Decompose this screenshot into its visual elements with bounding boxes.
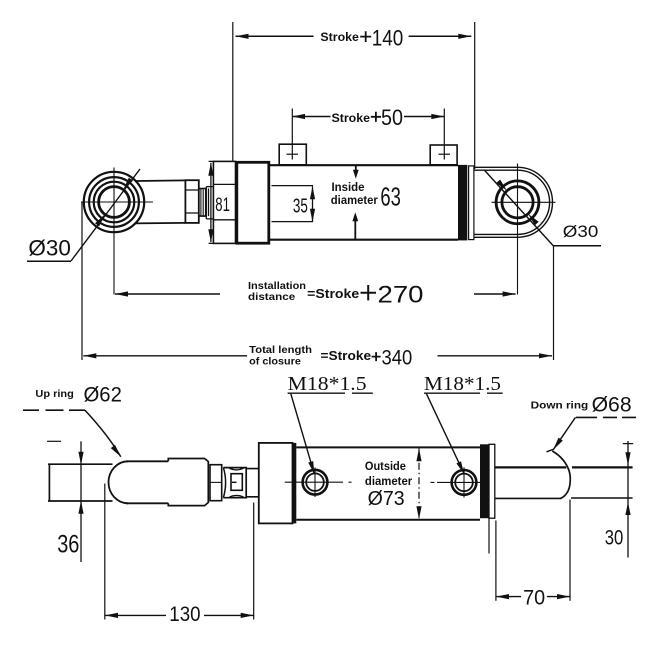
dimension Total length of closure [83,353,552,358]
rod neck [206,187,213,219]
svg-text:Inside: Inside [332,182,365,194]
dimension 35 [310,186,315,222]
gland block [213,161,235,243]
right eye plate [474,167,553,237]
svg-text:M18*1.5: M18*1.5 [288,373,367,395]
right rod (down ring side) [495,466,633,468]
extension line left eye tangent [81,202,83,360]
svg-text:30: 30 [605,527,624,550]
right M18 leader [426,394,464,474]
label Stroke+140 [320,32,359,44]
svg-text:=Stroke: =Stroke [321,349,372,363]
svg-text:Outside: Outside [365,461,406,473]
left M18 leader [291,394,315,475]
dimension 73 [416,448,421,519]
svg-text:=Stroke: =Stroke [307,287,359,301]
dimension 30 [623,441,633,558]
head thick block [237,162,269,243]
down ring leader [576,416,636,418]
up ring sleeve [109,461,129,503]
right eye circles [496,181,539,224]
label Inside diameter 63 [331,181,401,211]
right port circle M18 [431,467,487,497]
svg-text:diameter: diameter [331,195,379,207]
svg-text:Ø30: Ø30 [563,222,599,241]
left port circle M18 [285,468,352,498]
right eye leader diagonal [485,171,554,247]
right eye center lines [492,201,556,203]
dimension 130 [105,484,254,620]
svg-text:Ø62: Ø62 [84,384,122,407]
spacer strip [469,166,474,240]
piston rod hidden lines [272,186,314,222]
rod stub [246,469,259,497]
cylinder barrel (upper view) [269,165,458,240]
svg-text:70: 70 [523,586,545,609]
inside diameter arrows [352,166,358,240]
head block (lower view) [259,443,293,524]
left eye center lines [81,201,153,203]
clevis body (rod end) [134,180,185,223]
dimension 36 [47,441,84,562]
dimension 70 [496,500,570,601]
svg-text:270: 270 [378,282,424,309]
extension line right port center [443,109,445,160]
svg-text:140: 140 [372,25,404,50]
left eye leader diagonal [71,169,140,261]
sleeve collar [168,459,208,506]
lock nut [223,468,246,498]
left eye diameter arrows [95,214,105,226]
svg-text:of closure: of closure [249,355,301,367]
barrel end black band [458,165,467,241]
right port (upper view) [430,145,457,165]
label right diameter 30 [554,245,602,247]
left port (upper view) [279,144,306,165]
dimension Stroke+140 line [236,34,472,39]
svg-text:Ø30: Ø30 [28,236,71,261]
svg-text:Total length: Total length [249,344,312,356]
svg-text:M18*1.5: M18*1.5 [424,373,501,395]
rod nut [185,180,198,223]
svg-text:Up ring: Up ring [35,388,73,400]
label M18*1.5 right [424,373,501,395]
lower rod left [48,464,113,501]
svg-text:35: 35 [293,195,308,217]
threaded rod section [199,189,207,217]
extension line right (eye plate top) [474,22,476,169]
extension line left port center [291,109,293,160]
svg-text:36: 36 [57,530,79,558]
left eye circles [84,172,144,232]
label left diameter 30 [27,260,71,262]
dimension 81 [208,163,213,242]
svg-text:Down ring: Down ring [531,400,589,412]
svg-text:340: 340 [382,346,413,370]
label Outside diameter 73 [365,461,413,510]
svg-text:distance: distance [248,291,295,303]
barrel end black band (lower) [480,444,489,518]
label Up ring [35,384,122,407]
right eye diameter arrows [496,180,507,191]
extension line right eye tangent [553,246,555,360]
svg-text:81: 81 [215,195,230,216]
svg-text:Stroke: Stroke [332,113,371,125]
down ring dome arc [552,451,570,498]
label M18*1.5 left [288,373,367,395]
dimension Installation distance [115,291,516,296]
cap strip (lower) [489,444,495,518]
extension line left (gland top) [232,22,234,161]
svg-text:63: 63 [380,181,401,211]
label Down ring [531,394,632,417]
barrel (lower view) [296,447,480,519]
dimension Stroke+50 line [292,114,444,119]
svg-text:Stroke: Stroke [320,32,359,44]
washer [210,465,222,501]
svg-text:Ø73: Ø73 [368,487,405,510]
svg-text:Ø68: Ø68 [592,394,632,417]
label Stroke+50 [332,113,371,125]
svg-text:130: 130 [169,603,200,626]
up ring leader [23,409,85,411]
svg-text:50: 50 [381,105,403,130]
